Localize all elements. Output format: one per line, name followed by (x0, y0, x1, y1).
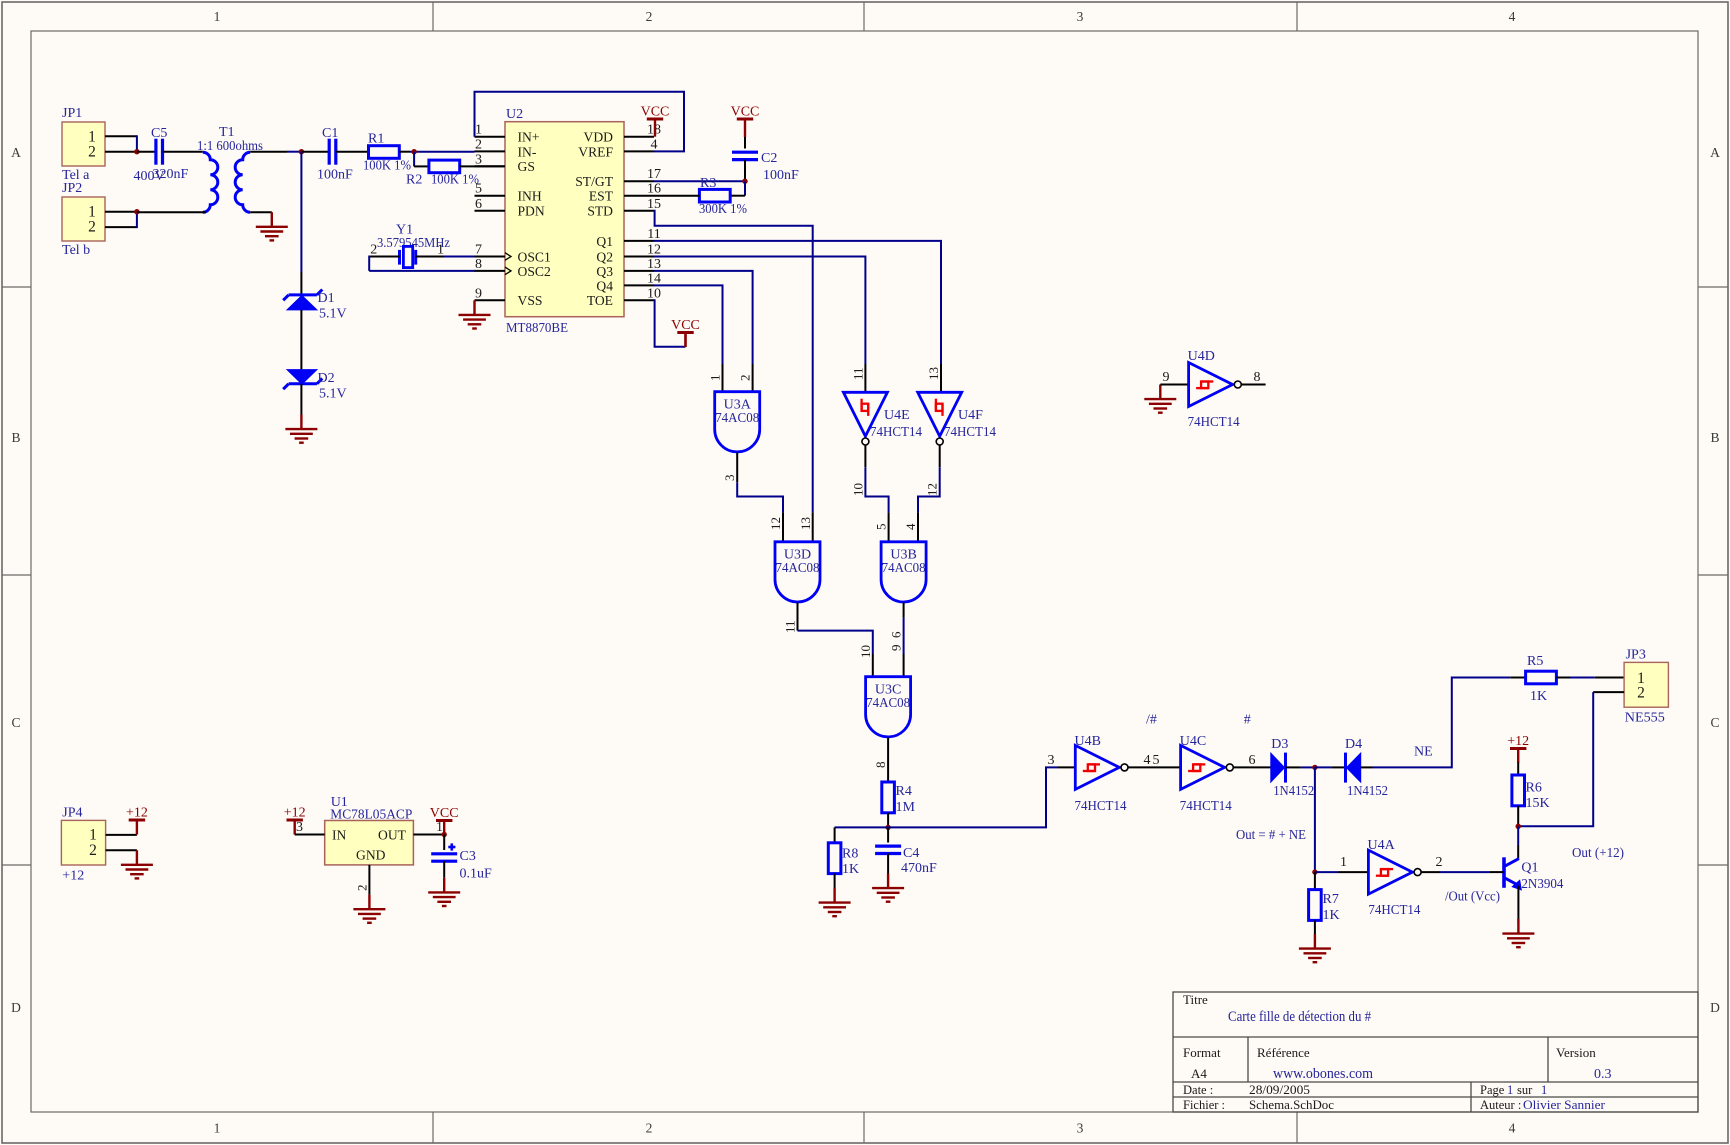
svg-text:MT8870BE: MT8870BE (506, 321, 568, 336)
svg-text:sur: sur (1517, 1083, 1533, 1097)
wire junction to D4 (1315, 766, 1331, 768)
junction D3/D4 node (1312, 765, 1317, 770)
svg-text:IN: IN (332, 828, 347, 843)
svg-text:2: 2 (370, 243, 377, 258)
svg-text:/#: /# (1146, 712, 1157, 727)
diode D3 (1271, 753, 1285, 782)
wire D2 to ground (300, 384, 302, 415)
U3D pin 13 (812, 512, 814, 541)
wire node down to R2 (413, 152, 415, 167)
svg-text:100K 1%: 100K 1% (431, 173, 479, 188)
svg-text:Page: Page (1480, 1083, 1505, 1097)
svg-text:D4: D4 (1345, 737, 1362, 752)
wire U3D.11 to U3C.10 (798, 631, 873, 654)
U3C pin 9 (903, 654, 905, 677)
U2 right pins (624, 136, 654, 138)
zener D1 (287, 295, 317, 310)
wire T1 secondary bottom to ground (250, 211, 272, 213)
capacitor C2 (732, 151, 758, 154)
svg-text:15K: 15K (1526, 796, 1550, 811)
svg-text:9: 9 (475, 286, 482, 301)
U3B pin 5 (888, 512, 890, 541)
wire JP2.2 to node (136, 212, 138, 228)
transformer T1 secondary winding (235, 152, 250, 212)
ground below R7 (1314, 934, 1316, 949)
ground U2 VSS (473, 300, 475, 315)
wire D4 to R5 (1361, 766, 1373, 768)
svg-text:74AC08: 74AC08 (882, 561, 926, 576)
ground below D2 (300, 415, 302, 430)
svg-text:GND: GND (356, 848, 386, 863)
svg-text:VCC: VCC (430, 806, 459, 821)
svg-text:6: 6 (1249, 753, 1256, 768)
wire C4 to ground (887, 854, 889, 874)
svg-text:VSS: VSS (518, 293, 543, 308)
svg-text:U4D: U4D (1188, 349, 1215, 364)
capacitor C3 plus sign (448, 846, 455, 849)
JP2 pin 2 (105, 226, 137, 228)
U3A pin 1 (722, 364, 724, 392)
svg-text:74HCT14: 74HCT14 (1075, 799, 1127, 814)
svg-text:U4A: U4A (1368, 838, 1396, 853)
svg-text:4: 4 (1509, 1121, 1516, 1136)
svg-text:Schema.SchDoc: Schema.SchDoc (1249, 1097, 1334, 1112)
svg-text:17: 17 (647, 167, 661, 182)
wire R8 to ground (834, 874, 836, 888)
wire R2 to U2 GS (460, 165, 505, 167)
svg-text:Olivier Sannier: Olivier Sannier (1523, 1097, 1606, 1112)
junction R4 node (885, 825, 890, 830)
capacitor C4 (875, 844, 901, 847)
svg-text:TOE: TOE (587, 293, 613, 308)
svg-text:6: 6 (475, 197, 482, 212)
svg-text:C: C (1710, 715, 1719, 730)
JP3 pin 2 wire (1593, 691, 1624, 693)
inverter U4D (1189, 363, 1233, 407)
U2 OSC clock marks (505, 253, 511, 261)
svg-text:5: 5 (874, 524, 889, 531)
svg-text:1N4152: 1N4152 (1347, 784, 1388, 799)
svg-text:Auteur :: Auteur : (1480, 1098, 1521, 1112)
wire U4A out to Q1 base (1421, 871, 1440, 873)
svg-text:16: 16 (647, 182, 661, 197)
svg-text:#: # (1244, 712, 1251, 727)
connector JP1 (62, 122, 105, 166)
U4E pin 11 (864, 364, 866, 392)
svg-text:12: 12 (647, 243, 661, 258)
svg-text:Q2: Q2 (596, 249, 613, 264)
wire R4 to junction (887, 813, 889, 828)
wire U3A.3 to U3D.12 (737, 482, 783, 512)
svg-text:100nF: 100nF (317, 168, 353, 183)
U1 pin 2 (GND) (368, 865, 370, 895)
svg-text:Q3: Q3 (596, 264, 613, 279)
wire U3B.6 to U3C.9 (903, 618, 905, 654)
svg-text:EST: EST (589, 189, 614, 204)
svg-text:OSC2: OSC2 (518, 264, 551, 279)
svg-text:R2: R2 (406, 173, 422, 188)
JP1 pin 1 (105, 135, 137, 137)
wire R1 to node (399, 151, 410, 153)
svg-text:9: 9 (889, 645, 904, 652)
resistor R3 (699, 189, 730, 202)
svg-text:1: 1 (475, 123, 482, 138)
resistor R6 (1512, 775, 1525, 806)
svg-text:R7: R7 (1323, 892, 1339, 907)
svg-text:D: D (1710, 1000, 1720, 1015)
svg-text:Tel b: Tel b (62, 243, 90, 258)
wire C2 to junction (744, 160, 746, 182)
ground below U1 (368, 895, 370, 910)
svg-text:B: B (1710, 430, 1719, 445)
U3D pin 11 output (797, 603, 799, 631)
svg-text:3: 3 (722, 475, 737, 482)
wire TOE to VCC (654, 300, 686, 347)
svg-text:2: 2 (646, 9, 653, 24)
wire C1 to R1 (336, 151, 369, 153)
svg-text:1: 1 (436, 820, 443, 835)
IC U2 body (505, 122, 624, 317)
AND gate U3B (881, 542, 926, 602)
svg-text:74HCT14: 74HCT14 (870, 425, 922, 440)
svg-text:1: 1 (214, 1121, 221, 1136)
svg-text:JP4: JP4 (62, 806, 82, 821)
svg-text:C3: C3 (460, 849, 476, 864)
svg-text:U2: U2 (506, 107, 523, 122)
JP1 pin 2 (105, 151, 137, 153)
svg-text:OUT: OUT (378, 828, 407, 843)
wire node down to D1 (300, 152, 302, 272)
svg-text:R5: R5 (1527, 654, 1543, 669)
svg-text:R8: R8 (842, 847, 858, 862)
svg-text:15: 15 (647, 197, 661, 212)
wire T1 primary bottom to JP2 node (137, 211, 206, 213)
junction main input node (299, 149, 304, 154)
svg-text:D3: D3 (1271, 737, 1288, 752)
svg-text:2: 2 (1436, 855, 1443, 870)
junction C2/R3 (742, 179, 747, 184)
svg-text:2: 2 (89, 842, 97, 859)
border zone tick marks (432, 2, 434, 31)
U4F pin 13 (940, 364, 942, 392)
svg-text:11: 11 (647, 227, 660, 242)
U1 pin 1 (OUT) (413, 834, 444, 836)
svg-text:0.3: 0.3 (1594, 1067, 1612, 1082)
svg-text:1: 1 (89, 827, 97, 844)
wire R7 to ground (1314, 920, 1316, 934)
svg-text:11: 11 (850, 367, 865, 380)
wire junction down to R3 (744, 181, 746, 196)
U3A pin 3 output (736, 453, 738, 483)
resistor R4 (882, 782, 895, 813)
wire U4E.10 to U3B.5 (865, 467, 888, 512)
svg-text:+12: +12 (1507, 734, 1529, 749)
AND gate U3C (866, 677, 911, 737)
U1 pin 3 (295, 834, 325, 836)
svg-text:R6: R6 (1526, 781, 1542, 796)
svg-text:B: B (11, 430, 20, 445)
svg-text:3: 3 (296, 820, 303, 835)
svg-text:IN+: IN+ (518, 130, 540, 145)
wire Q1 emitter to ground (1517, 886, 1519, 923)
wire C5 to T1 (163, 151, 203, 153)
resistor R7 (1309, 890, 1322, 921)
svg-text:Out = # + NE: Out = # + NE (1236, 828, 1306, 843)
wire JP1.1 to node (136, 135, 138, 151)
svg-text:12: 12 (768, 517, 783, 530)
wire D3 to junction (1286, 766, 1301, 768)
svg-text:14: 14 (647, 271, 661, 286)
wire R3 right (730, 195, 745, 197)
ground T1 secondary (271, 212, 273, 227)
connector JP4 (61, 820, 105, 865)
svg-text:Référence: Référence (1257, 1045, 1310, 1060)
svg-text:2: 2 (738, 375, 753, 382)
svg-text:28/09/2005: 28/09/2005 (1249, 1082, 1310, 1097)
svg-text:74HCT14: 74HCT14 (944, 425, 996, 440)
svg-text:5: 5 (1153, 753, 1160, 768)
svg-text:U4B: U4B (1075, 734, 1101, 749)
svg-text:C2: C2 (761, 151, 777, 166)
svg-text:T1: T1 (219, 125, 235, 140)
resistor R1 (369, 146, 400, 159)
svg-text:JP2: JP2 (62, 181, 82, 196)
ground at JP4 (136, 850, 138, 865)
wire R5 to JP3.1 (1556, 677, 1570, 679)
capacitor C3 (431, 852, 457, 855)
svg-text:300K 1%: 300K 1% (699, 202, 747, 217)
svg-text:3: 3 (1048, 753, 1055, 768)
svg-text:1N4152: 1N4152 (1273, 784, 1314, 799)
transistor Q1 (1502, 857, 1506, 888)
AND gate U3A (715, 392, 760, 452)
JP4 pin 1 (106, 834, 137, 836)
svg-text:1: 1 (1340, 855, 1347, 870)
svg-text:9: 9 (1163, 370, 1170, 385)
svg-text:100nF: 100nF (763, 168, 799, 183)
svg-text:Fichier :: Fichier : (1183, 1098, 1225, 1112)
svg-text:OSC1: OSC1 (518, 249, 551, 264)
wire Q1 to U4F.13 (654, 241, 941, 364)
zener D2 (287, 370, 317, 385)
ground below C3 (443, 878, 445, 893)
junction U1 OUT (442, 832, 447, 837)
svg-text:8: 8 (1254, 370, 1261, 385)
svg-text:Q4: Q4 (596, 278, 613, 293)
wire Q2 to U4E.11 (654, 257, 865, 365)
svg-text:2: 2 (1637, 685, 1645, 702)
svg-text:3: 3 (475, 152, 482, 167)
svg-text:R1: R1 (368, 132, 384, 147)
svg-text:ST/GT: ST/GT (575, 174, 613, 189)
svg-text:5: 5 (475, 182, 482, 197)
svg-text:8: 8 (475, 257, 482, 272)
svg-text:Carte fille de détection du #: Carte fille de détection du # (1228, 1008, 1371, 1025)
diode D4 (1344, 753, 1347, 783)
junction R1/R2 node (411, 149, 416, 154)
svg-text:A: A (1710, 145, 1720, 160)
AND gate U3D (775, 542, 820, 602)
wire U2 pin1 VREF loop (475, 92, 685, 152)
ground below C4 (887, 874, 889, 889)
svg-text:A4: A4 (1191, 1066, 1207, 1081)
svg-text:1: 1 (1541, 1083, 1547, 1097)
svg-text:74AC08: 74AC08 (866, 696, 910, 711)
wire T1 secondary top to node (250, 151, 287, 153)
JP4 pin 2 (106, 849, 137, 851)
wire node to R7 (1314, 872, 1316, 890)
svg-text:1: 1 (708, 375, 723, 382)
svg-text:1: 1 (214, 9, 221, 24)
svg-text:2: 2 (88, 144, 96, 161)
inverter U4A (1368, 850, 1412, 894)
svg-text:320nF: 320nF (153, 167, 189, 182)
svg-text:R4: R4 (896, 784, 912, 799)
svg-text:IN-: IN- (518, 144, 537, 159)
wire U1 OUT to C3 (443, 835, 445, 851)
capacitor C1 (328, 139, 331, 165)
wire STD to U3D.13 (654, 211, 813, 513)
JP2 pin 1 (105, 211, 137, 213)
svg-text:PDN: PDN (518, 204, 545, 219)
wire U4F.12 to U3B.4 (918, 467, 940, 512)
inverter U4C (1181, 745, 1225, 789)
crystal Y1 (403, 246, 412, 267)
wire U4C out to D3 (1233, 766, 1271, 768)
svg-text:C: C (11, 715, 20, 730)
svg-text:74HCT14: 74HCT14 (1188, 415, 1240, 430)
svg-text:+12: +12 (62, 869, 84, 884)
svg-text:VDD: VDD (584, 130, 614, 145)
IC U1 body (325, 821, 414, 865)
svg-text:10: 10 (858, 645, 873, 658)
U3A pin 2 (752, 364, 754, 392)
svg-text:1: 1 (437, 243, 444, 258)
svg-text:6: 6 (889, 631, 904, 638)
svg-text:+12: +12 (284, 806, 306, 821)
svg-text:1M: 1M (896, 800, 916, 815)
wire Q3 to U3A.2 (654, 271, 753, 364)
svg-text:5.1V: 5.1V (319, 307, 347, 322)
svg-text:1: 1 (1507, 1083, 1513, 1097)
svg-text:74HCT14: 74HCT14 (1368, 903, 1420, 918)
svg-text:D2: D2 (318, 371, 335, 386)
svg-text:2: 2 (475, 137, 482, 152)
connector JP3 (1624, 662, 1668, 707)
svg-text:4: 4 (1509, 9, 1516, 24)
junction U4A node (1312, 869, 1317, 874)
svg-text:NE: NE (1414, 745, 1433, 760)
ground U4D input (1159, 385, 1161, 400)
U4E pin 10 output (864, 445, 866, 467)
resistor R2 (429, 160, 460, 173)
U2 left pins (475, 136, 506, 138)
wire into R5 (1510, 677, 1525, 679)
svg-text:Q1: Q1 (1521, 861, 1538, 876)
resistor R5 (1526, 671, 1557, 684)
inverter U4F (918, 392, 962, 436)
U3B pin 4 (917, 512, 919, 541)
wire R6 to junction (1517, 806, 1519, 827)
wire R3 to EST (654, 195, 700, 197)
svg-text:D1: D1 (318, 291, 335, 306)
svg-text:100K 1%: 100K 1% (363, 159, 411, 174)
U3D pin 12 (782, 512, 784, 541)
svg-text:U4E: U4E (884, 408, 910, 423)
svg-text:1K: 1K (1530, 689, 1547, 704)
svg-text:GS: GS (518, 159, 535, 174)
junction R6/Q1 node (1516, 824, 1521, 829)
junction JP2 node (134, 209, 139, 214)
svg-text:D: D (11, 1000, 21, 1015)
wire U4B out to U4C (1128, 766, 1181, 768)
svg-text:4: 4 (651, 137, 658, 152)
svg-text:13: 13 (647, 257, 661, 272)
svg-text:JP1: JP1 (62, 106, 82, 121)
svg-text:A: A (11, 145, 21, 160)
junction JP1 node (134, 149, 139, 154)
svg-text:74AC08: 74AC08 (715, 411, 759, 426)
svg-text:2N3904: 2N3904 (1521, 877, 1563, 892)
svg-text:74HCT14: 74HCT14 (1180, 799, 1232, 814)
resistor R8 (828, 843, 841, 874)
svg-text:2: 2 (354, 885, 369, 892)
wire node to R2 (414, 165, 429, 167)
svg-text:Q1: Q1 (596, 234, 613, 249)
title block grid (1173, 992, 1698, 1112)
svg-text:VCC: VCC (641, 105, 670, 120)
svg-text:NE555: NE555 (1625, 711, 1665, 726)
ground below Q1 (1517, 919, 1519, 934)
svg-text:VCC: VCC (731, 105, 760, 120)
svg-text:C1: C1 (322, 126, 338, 141)
svg-text:13: 13 (926, 367, 941, 380)
svg-text:1K: 1K (1323, 908, 1340, 923)
U4F pin 12 output (939, 445, 941, 467)
svg-text:R3: R3 (700, 176, 716, 191)
svg-text:74AC08: 74AC08 (776, 561, 820, 576)
wire Q4 to U3A.1 (654, 285, 723, 364)
svg-text:C5: C5 (151, 126, 167, 141)
svg-text:8: 8 (873, 762, 888, 769)
svg-text:470nF: 470nF (901, 861, 937, 876)
wire node horizontal to U4B (835, 767, 1058, 827)
svg-text:Date :: Date : (1183, 1083, 1213, 1097)
svg-text:VCC: VCC (671, 318, 700, 333)
svg-text:+12: +12 (126, 806, 148, 821)
wire node to C4 (887, 827, 889, 842)
U3C pin 10 (872, 654, 874, 677)
svg-text:4: 4 (1144, 753, 1151, 768)
svg-text:12: 12 (925, 483, 940, 496)
U4D pin 8 output (1241, 384, 1265, 386)
ground below R8 (833, 888, 835, 903)
svg-text:Format: Format (1183, 1045, 1221, 1060)
svg-text:2: 2 (646, 1121, 653, 1136)
svg-text:Out (+12): Out (+12) (1572, 846, 1624, 861)
svg-text:3: 3 (1077, 9, 1084, 24)
svg-text:3: 3 (1077, 1121, 1084, 1136)
wire ground to U4D (1160, 384, 1188, 386)
wire D3 node down to U4A node (1314, 767, 1316, 872)
wire node to U4A input (1315, 871, 1338, 873)
svg-text:4: 4 (903, 523, 918, 530)
U4B pin 3 (1058, 766, 1075, 768)
svg-text:1K: 1K (842, 862, 859, 877)
svg-text:10: 10 (850, 483, 865, 496)
wire node to C1 (301, 151, 329, 153)
capacitor C5 (154, 139, 157, 165)
